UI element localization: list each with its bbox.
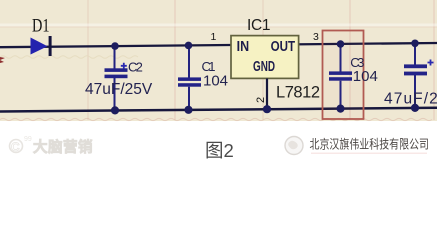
svg-text:北京汉旗伟业科技有限公司: 北京汉旗伟业科技有限公司 (310, 137, 430, 152)
svg-text:1: 1 (211, 31, 217, 43)
svg-text:图2: 图2 (205, 140, 234, 160)
svg-text:104: 104 (353, 68, 378, 85)
svg-text:99: 99 (24, 136, 32, 143)
svg-text:C: C (11, 140, 20, 154)
svg-text:OUT: OUT (271, 39, 296, 55)
svg-text:47uF/25V: 47uF/25V (85, 81, 153, 98)
svg-text:C2: C2 (128, 60, 143, 75)
svg-text:IC1: IC1 (247, 17, 271, 34)
svg-text:L7812: L7812 (276, 84, 320, 102)
svg-text:大脑营销: 大脑营销 (33, 138, 93, 156)
svg-text:D1: D1 (32, 16, 50, 37)
svg-text:3: 3 (313, 31, 319, 43)
svg-text:2: 2 (255, 97, 267, 103)
svg-text:104: 104 (203, 73, 228, 90)
svg-text:GND: GND (253, 59, 275, 75)
svg-text:47uF/25V: 47uF/25V (384, 91, 437, 108)
svg-text:IN: IN (237, 39, 250, 55)
